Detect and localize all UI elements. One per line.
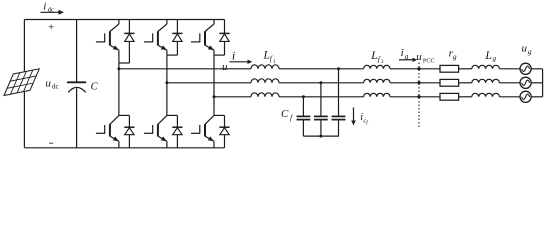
svg-text:dc: dc [48,7,54,14]
wire: phase a (source to bus) [531,68,542,70]
wire: leg 3 midpoint [213,55,215,97]
wire: top DC rail [24,19,224,21]
IGBT Q4 (lower) [96,69,119,148]
wire: phase b line [167,82,251,84]
inductor L_f1 phase a [251,65,279,69]
resistor r_g phase b [440,79,459,86]
wire: grid neutral bus [542,69,544,97]
wire: leg-diode junction bar [167,114,178,116]
IGBT Q2 (upper) [144,20,167,56]
svg-text:u: u [522,42,528,54]
node: phase b tap [165,81,168,84]
inductor L_g phase a [472,65,500,69]
inductor L_f1 phase b [251,79,279,83]
node: phase c tap [213,95,216,98]
svg-text:f: f [290,113,293,122]
IGBT Q5 (lower) [144,83,167,148]
node: phase a tap [117,67,120,70]
wire: leg-diode junction bar [119,114,129,116]
wire: emitter-diode junction bar [214,54,225,56]
capacitor C (dc-link) [76,20,78,83]
AC source u_g phase b [520,77,531,88]
wire: phase c (Lf2 to rg) [390,96,440,98]
wire: phase a (Lg to source) [499,68,520,70]
diode D2 (antiparallel, upper) [172,20,182,56]
wire: phase a line [119,68,251,70]
wire: phase b (source to bus) [531,82,542,84]
wire: phase a (rg to Lg) [459,68,472,70]
diode D6 (antiparallel, lower) [219,115,229,147]
wire: phase b (Lf2 to rg) [390,82,440,84]
wire: phase b (rg to Lg) [459,82,472,84]
svg-text:u: u [416,51,422,63]
svg-text:i: i [43,1,46,13]
node: Cf-a tap [337,67,340,70]
wire: phase c (Lg to source) [499,96,520,98]
IGBT Q6 (lower) [191,97,214,148]
svg-text:L: L [263,50,270,62]
wire: phase a (Lf1 to Lf2) [279,68,364,70]
current arrow i_dc [41,11,60,13]
IGBT Q3 (upper) [191,20,214,56]
AC source u_g phase c [520,91,531,102]
svg-text:C: C [281,108,289,120]
svg-text:L: L [484,50,491,62]
svg-text:1: 1 [273,59,276,65]
filter capacitor Cf-a [332,69,346,136]
inductor L_g phase c [472,93,500,97]
svg-text:PCC: PCC [423,58,435,65]
inductor L_f2 phase c [364,93,390,97]
wire: bottom DC rail [24,147,224,149]
svg-text:L: L [370,50,377,62]
svg-text:g: g [405,51,409,60]
svg-text:+: + [48,22,54,34]
wire: leg-diode junction bar [214,114,225,116]
PCC measurement dotted line [418,63,420,128]
wire: leg 1 midpoint [118,63,120,69]
label - (dc bus polarity) [49,142,53,144]
PV array panel [4,69,39,96]
svg-text:g: g [453,52,457,61]
node: Cf-b tap [319,81,322,84]
filter capacitor Cf-b [314,83,328,136]
wire: phase b (Lg to source) [499,82,520,84]
diode D1 (antiparallel, upper) [124,20,134,64]
wire: phase c line [214,96,251,98]
diode D4 (antiparallel, lower) [124,115,134,147]
svg-text:i: i [401,47,404,59]
svg-text:u: u [45,77,51,89]
svg-text:i: i [232,49,235,63]
wire: phase a (Lf2 to rg) [390,68,440,70]
filter capacitor Cf-c [297,97,311,136]
diode D5 (antiparallel, lower) [172,115,182,147]
wire: phase c (source to bus) [531,96,542,98]
current arrow i (inverter current) [230,61,249,63]
wire: leg 2 midpoint [166,55,168,83]
wire: capacitor bank neutral bus [303,135,339,137]
resistor r_g phase c [440,93,459,100]
inductor L_g phase b [472,79,500,83]
node: neutral bus junction [319,135,322,138]
current arrow i_cf [353,107,355,121]
wire: phase c (rg to Lg) [459,96,472,98]
svg-text:dc: dc [52,82,59,90]
svg-text:g: g [528,47,532,56]
current arrow i_g [399,59,413,61]
diode D3 (antiparallel, upper) [219,20,229,56]
svg-text:C: C [91,82,99,93]
node: PCC phase a [417,67,420,70]
resistor r_g phase a [440,65,459,72]
node: Cf-c tap [302,95,305,98]
svg-text:f: f [366,121,368,126]
inductor L_f2 phase b [364,79,390,83]
AC source u_g phase a [520,63,531,74]
svg-text:2: 2 [381,59,384,65]
wire: emitter-diode junction bar [119,62,129,64]
wire: phase c (Lf1 to Lf2) [279,96,364,98]
wire: phase b (Lf1 to Lf2) [279,82,364,84]
svg-text:g: g [493,56,497,63]
IGBT Q1 (upper) [96,20,119,64]
wire: emitter-diode junction bar [167,54,178,56]
inductor L_f1 phase c [251,93,279,97]
node: PCC phase c [417,95,420,98]
node: PCC phase b [417,81,420,84]
wire: left DC bus [23,20,25,148]
svg-text:u: u [222,61,228,73]
inductor L_f2 phase a [364,65,390,69]
